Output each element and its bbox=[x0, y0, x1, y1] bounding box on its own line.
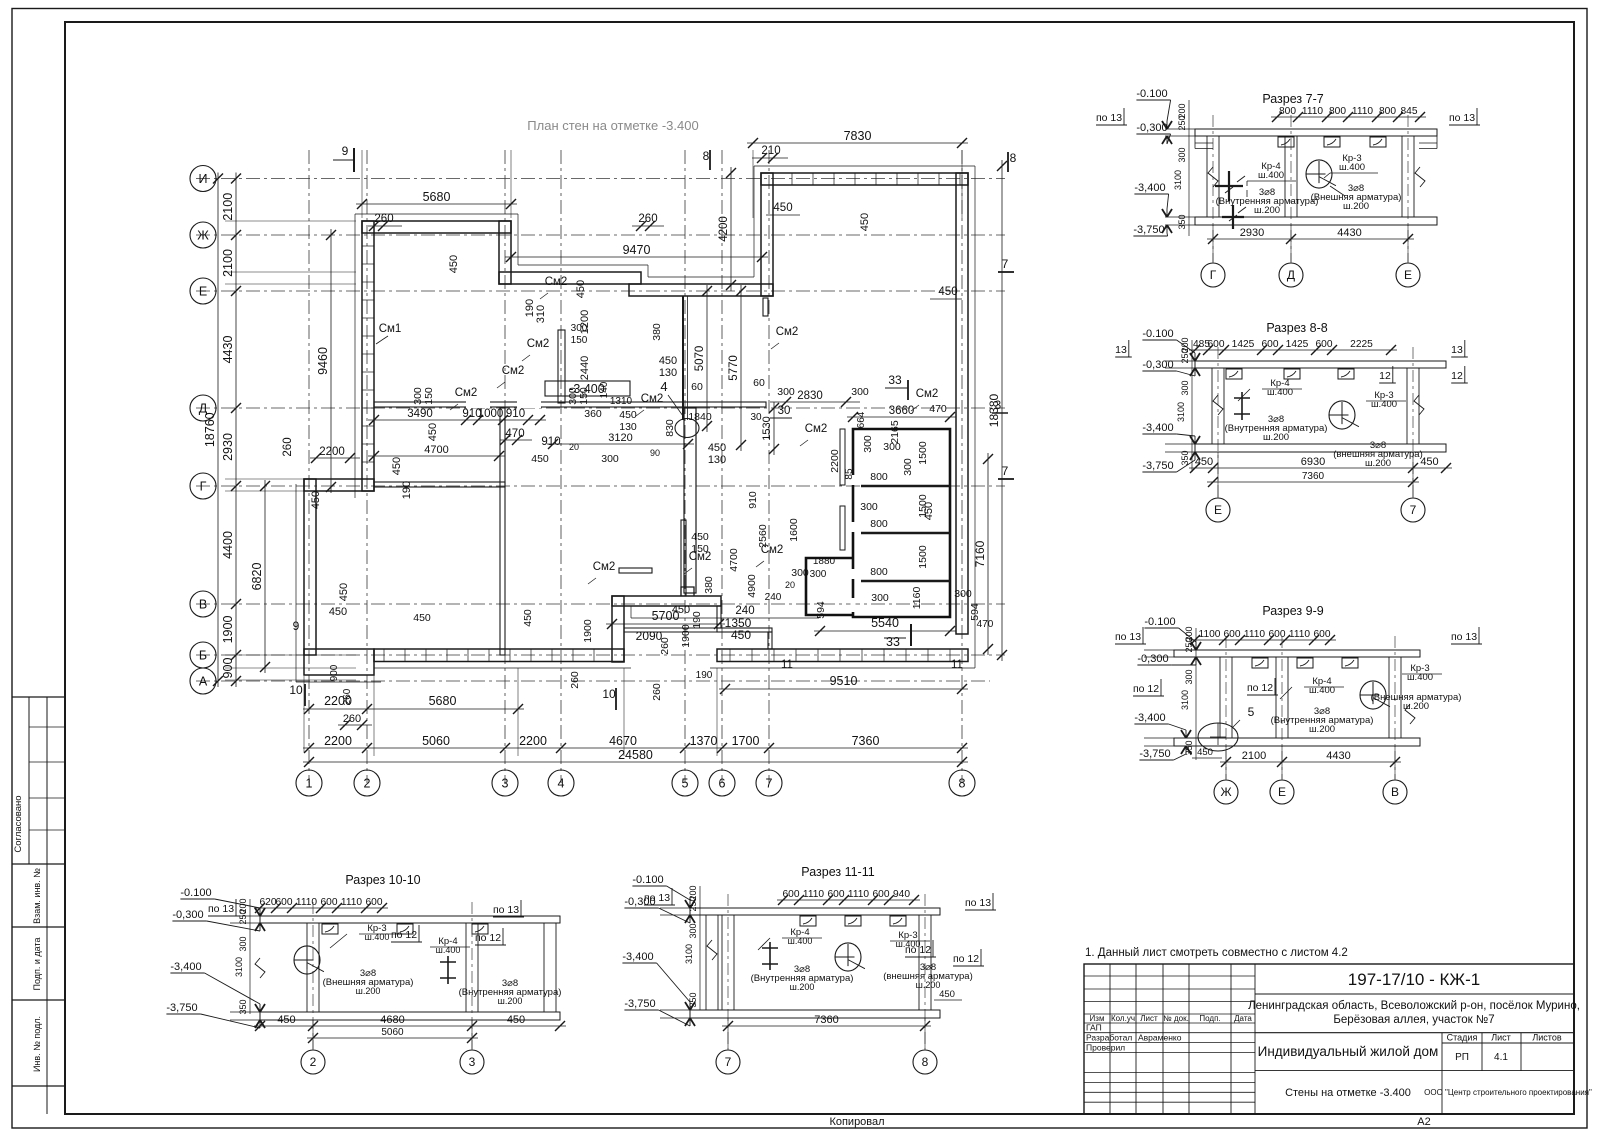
stair cluster left wall openings bbox=[851, 475, 856, 485]
svg-text:по 13: по 13 bbox=[208, 903, 234, 915]
svg-text:600: 600 bbox=[276, 897, 293, 908]
svg-text:600: 600 bbox=[783, 889, 800, 900]
svg-text:150: 150 bbox=[691, 543, 709, 555]
svg-text:300: 300 bbox=[902, 458, 914, 476]
svg-text:450: 450 bbox=[531, 453, 549, 465]
svg-text:по 12: по 12 bbox=[475, 932, 501, 944]
svg-text:Стены на отметке -3.400: Стены на отметке -3.400 bbox=[1285, 1087, 1411, 1099]
svg-text:Разрез 8-8: Разрез 8-8 bbox=[1266, 321, 1327, 335]
svg-text:по 12: по 12 bbox=[1247, 682, 1273, 694]
svg-text:Авраменко: Авраменко bbox=[1138, 1033, 1182, 1043]
svg-text:450: 450 bbox=[310, 491, 322, 509]
svg-text:3100: 3100 bbox=[1176, 402, 1186, 422]
svg-text:2200: 2200 bbox=[324, 734, 352, 748]
svg-text:4430: 4430 bbox=[221, 336, 235, 364]
section Разрез 10-10 rebar inserts bbox=[322, 924, 338, 934]
svg-text:7: 7 bbox=[766, 777, 773, 791]
svg-text:7360: 7360 bbox=[852, 734, 880, 748]
svg-text:250: 250 bbox=[238, 909, 248, 924]
svg-text:Взам. инв. №: Взам. инв. № bbox=[32, 868, 42, 924]
svg-text:4680: 4680 bbox=[380, 1014, 404, 1026]
section Разрез 7-7 axis bubbles bbox=[1201, 263, 1225, 287]
svg-text:Cм2: Cм2 bbox=[593, 561, 616, 573]
svg-text:1100: 1100 bbox=[1199, 629, 1221, 640]
svg-text:150: 150 bbox=[571, 335, 588, 346]
svg-text:9510: 9510 bbox=[830, 674, 858, 688]
svg-text:450: 450 bbox=[672, 604, 690, 616]
axis bubble 6 bbox=[709, 770, 735, 796]
cluster room walls bottom-left bbox=[806, 558, 852, 615]
svg-text:1000: 1000 bbox=[478, 408, 504, 420]
cluster thin wall stub lower bbox=[840, 506, 845, 550]
left dimension 9460 bbox=[330, 229, 332, 493]
svg-text:Cм2: Cм2 bbox=[916, 388, 939, 400]
svg-text:9: 9 bbox=[342, 144, 349, 158]
svg-text:7360: 7360 bbox=[1302, 471, 1325, 482]
axis bubble Г bbox=[190, 473, 216, 499]
svg-text:940: 940 bbox=[893, 889, 910, 900]
svg-text:План стен на отметке -3.400: План стен на отметке -3.400 bbox=[527, 118, 698, 133]
svg-text:12: 12 bbox=[1379, 370, 1391, 382]
section Разрез 7-7 bottom dims bbox=[1207, 238, 1414, 240]
svg-text:Ленинградская область, Всеволо: Ленинградская область, Всеволожский р-он… bbox=[1248, 1000, 1580, 1012]
perimeter wall left side axis 1 bbox=[304, 479, 316, 655]
wall segment hatch marks bottom left wall bbox=[383, 649, 385, 662]
left dimension chain axes bbox=[235, 173, 237, 688]
stair cluster divider 2 bbox=[861, 532, 950, 535]
section Разрез 11-11 axis bubbles bbox=[716, 1050, 740, 1074]
svg-text:2560: 2560 bbox=[757, 524, 769, 548]
section Разрез 8-8 break line bbox=[1414, 395, 1424, 415]
svg-text:260: 260 bbox=[343, 713, 361, 725]
svg-text:450: 450 bbox=[859, 213, 871, 231]
svg-text:ш.200: ш.200 bbox=[916, 980, 941, 990]
svg-text:130: 130 bbox=[659, 367, 677, 379]
svg-text:Cм2: Cм2 bbox=[455, 387, 478, 399]
svg-text:Е: Е bbox=[1404, 268, 1412, 282]
svg-text:450: 450 bbox=[731, 628, 751, 642]
svg-text:260: 260 bbox=[342, 688, 353, 705]
svg-text:Г: Г bbox=[1210, 268, 1217, 282]
svg-text:800: 800 bbox=[1379, 106, 1396, 117]
svg-text:4.1: 4.1 bbox=[1494, 1052, 1508, 1063]
interior wall stub x553 bbox=[558, 330, 565, 403]
svg-text:А2: А2 bbox=[1417, 1116, 1430, 1128]
svg-text:7: 7 bbox=[1002, 464, 1009, 478]
svg-text:Ж: Ж bbox=[1220, 785, 1231, 799]
interior wall on axis Д bbox=[374, 402, 766, 407]
section 9-9 detail ellipse 5 bbox=[1198, 723, 1238, 751]
svg-text:Стадия: Стадия bbox=[1447, 1033, 1478, 1043]
stair cluster divider 1 bbox=[861, 485, 950, 488]
svg-text:470: 470 bbox=[505, 428, 524, 440]
svg-text:№ док.: № док. bbox=[1163, 1014, 1189, 1023]
svg-text:12: 12 bbox=[1451, 370, 1463, 382]
svg-text:140: 140 bbox=[599, 381, 610, 398]
svg-text:11: 11 bbox=[781, 659, 793, 671]
section Разрез 11-11 bottom dims bbox=[722, 1025, 931, 1027]
extension lines bottom bbox=[373, 668, 375, 756]
svg-text:8: 8 bbox=[703, 149, 710, 163]
section Разрез 7-7 rebar circle detail bbox=[1306, 160, 1332, 188]
svg-text:190: 190 bbox=[401, 481, 413, 499]
left dimension chain overall 18760 bbox=[217, 173, 219, 688]
perimeter wall top of right block bbox=[761, 173, 968, 185]
svg-text:1110: 1110 bbox=[803, 889, 824, 900]
svg-text:800: 800 bbox=[870, 518, 888, 530]
svg-text:Разработал: Разработал bbox=[1086, 1033, 1132, 1043]
svg-text:3120: 3120 bbox=[608, 432, 632, 444]
svg-text:800: 800 bbox=[1329, 106, 1346, 117]
svg-text:-3,400: -3,400 bbox=[1134, 712, 1165, 724]
perimeter wall upper middle bbox=[499, 272, 641, 284]
section Разрез 8-8 rebar inserts bbox=[1226, 369, 1242, 379]
svg-text:-3,750: -3,750 bbox=[1133, 224, 1164, 236]
svg-text:310: 310 bbox=[535, 305, 547, 323]
opening detail ellipse 4 bbox=[675, 419, 699, 438]
foundation slab edge lines bbox=[355, 213, 518, 215]
svg-text:ш.200: ш.200 bbox=[1403, 701, 1429, 712]
svg-text:664: 664 bbox=[856, 411, 867, 428]
svg-text:Разрез 9-9: Разрез 9-9 bbox=[1262, 604, 1323, 618]
wall segment hatch marks top right wall bbox=[791, 173, 793, 185]
svg-text:360: 360 bbox=[584, 408, 602, 420]
section Разрез 11-11 axis lines bbox=[727, 894, 729, 1049]
interior wall stub x763 bbox=[763, 298, 768, 316]
interior wall bath vertical bbox=[681, 520, 686, 596]
svg-text:1530: 1530 bbox=[761, 416, 773, 440]
svg-text:450: 450 bbox=[938, 286, 957, 298]
section Разрез 9-9 pile walls bbox=[1219, 657, 1221, 738]
perimeter wall top of left block bbox=[362, 221, 511, 233]
svg-text:ш.400: ш.400 bbox=[436, 945, 461, 955]
svg-text:1500: 1500 bbox=[917, 545, 929, 569]
svg-text:260: 260 bbox=[638, 213, 657, 225]
axis bubble 5 bbox=[672, 770, 698, 796]
svg-text:Ж: Ж bbox=[197, 229, 209, 243]
svg-text:300: 300 bbox=[954, 588, 972, 600]
svg-text:300: 300 bbox=[862, 435, 874, 453]
svg-text:ш.200: ш.200 bbox=[498, 996, 523, 1006]
axis bubble 4 bbox=[548, 770, 574, 796]
svg-text:2930: 2930 bbox=[221, 433, 235, 461]
svg-text:8: 8 bbox=[1010, 151, 1017, 165]
svg-text:830: 830 bbox=[664, 419, 676, 437]
wall segment hatch marks on axis 2 wall bbox=[362, 245, 374, 247]
svg-text:5680: 5680 bbox=[423, 190, 451, 204]
svg-text:450: 450 bbox=[708, 442, 726, 454]
axis bubble Ж bbox=[190, 222, 216, 248]
section Разрез 10-10 pile walls bbox=[306, 923, 308, 1012]
svg-text:Проверил: Проверил bbox=[1086, 1043, 1125, 1053]
svg-text:И: И bbox=[199, 172, 208, 186]
svg-text:ш.400: ш.400 bbox=[365, 932, 390, 942]
svg-text:450: 450 bbox=[659, 355, 677, 367]
axis line 6 bbox=[721, 150, 723, 783]
svg-text:600: 600 bbox=[1269, 629, 1286, 640]
svg-text:600: 600 bbox=[1208, 339, 1225, 350]
svg-text:ш.200: ш.200 bbox=[1343, 201, 1369, 212]
svg-text:3: 3 bbox=[995, 400, 1001, 412]
axis line 2 bbox=[366, 150, 368, 783]
section Разрез 11-11 left vertical dims bbox=[699, 886, 701, 1010]
svg-text:3100: 3100 bbox=[234, 957, 244, 977]
section Разрез 10-10 break line bbox=[255, 958, 265, 978]
svg-text:24580: 24580 bbox=[618, 748, 653, 762]
svg-text:450: 450 bbox=[575, 280, 587, 298]
svg-text:2: 2 bbox=[364, 777, 371, 791]
svg-text:Д: Д bbox=[1287, 268, 1295, 282]
svg-text:380: 380 bbox=[703, 576, 715, 594]
svg-text:Г: Г bbox=[200, 480, 207, 494]
axis line Ж bbox=[196, 234, 1005, 236]
svg-text:1110: 1110 bbox=[296, 897, 317, 908]
svg-text:-3,750: -3,750 bbox=[1139, 748, 1170, 760]
svg-text:300: 300 bbox=[1180, 380, 1190, 395]
svg-text:190: 190 bbox=[524, 299, 536, 317]
svg-text:ш.200: ш.200 bbox=[356, 986, 381, 996]
svg-text:ш.200: ш.200 bbox=[1263, 432, 1289, 443]
svg-text:4: 4 bbox=[558, 777, 565, 791]
extension lines top bbox=[361, 150, 363, 218]
svg-text:2100: 2100 bbox=[221, 249, 235, 277]
svg-text:30: 30 bbox=[778, 405, 791, 417]
svg-text:240: 240 bbox=[765, 592, 782, 603]
svg-text:450: 450 bbox=[691, 531, 709, 543]
svg-text:13: 13 bbox=[1115, 344, 1127, 356]
svg-text:130: 130 bbox=[619, 421, 637, 433]
cluster thin wall stub upper bbox=[840, 429, 845, 485]
svg-text:150: 150 bbox=[423, 387, 435, 405]
svg-text:А: А bbox=[199, 675, 208, 689]
section Разрез 10-10 top slab bbox=[260, 916, 560, 923]
svg-text:7: 7 bbox=[725, 1055, 732, 1069]
svg-text:Cм2: Cм2 bbox=[641, 393, 664, 405]
svg-text:Cм1: Cм1 bbox=[379, 323, 402, 335]
svg-text:7: 7 bbox=[1410, 503, 1417, 517]
svg-text:197-17/10 - КЖ-1: 197-17/10 - КЖ-1 bbox=[1348, 970, 1480, 989]
axis bubble И bbox=[190, 166, 216, 192]
svg-text:4700: 4700 bbox=[728, 548, 740, 572]
svg-text:350: 350 bbox=[688, 992, 698, 1007]
svg-text:6930: 6930 bbox=[1301, 456, 1325, 468]
svg-text:1600: 1600 bbox=[788, 518, 800, 542]
svg-text:2225: 2225 bbox=[1350, 339, 1373, 350]
svg-text:Cм2: Cм2 bbox=[545, 276, 568, 288]
svg-text:300: 300 bbox=[810, 569, 827, 580]
axis line 4 bbox=[560, 150, 562, 783]
perimeter wall bottom middle bbox=[612, 596, 721, 606]
wall segment hatch marks bottom right wall bbox=[729, 649, 731, 662]
svg-text:1200: 1200 bbox=[579, 310, 591, 334]
svg-text:600: 600 bbox=[366, 897, 383, 908]
svg-text:20: 20 bbox=[785, 580, 795, 590]
svg-text:600: 600 bbox=[321, 897, 338, 908]
svg-text:190: 190 bbox=[696, 670, 713, 681]
svg-text:2440: 2440 bbox=[579, 356, 591, 380]
svg-text:18760: 18760 bbox=[203, 412, 217, 447]
section Разрез 7-7 top dim chain bbox=[1271, 116, 1426, 118]
svg-text:3: 3 bbox=[469, 1055, 476, 1069]
svg-text:1. Данный лист смотреть совмес: 1. Данный лист смотреть совместно с лист… bbox=[1085, 947, 1348, 959]
section Разрез 11-11 break line bbox=[707, 940, 717, 960]
svg-text:240: 240 bbox=[735, 605, 754, 617]
perimeter wall step down from middle block bbox=[717, 606, 721, 628]
svg-text:33: 33 bbox=[886, 635, 900, 649]
svg-text:13: 13 bbox=[1451, 344, 1463, 356]
section Разрез 9-9 axis bubbles bbox=[1214, 780, 1238, 804]
svg-text:6820: 6820 bbox=[250, 563, 264, 591]
svg-text:5060: 5060 bbox=[381, 1027, 404, 1038]
svg-text:5: 5 bbox=[1248, 705, 1255, 719]
section Разрез 9-9 left vertical dims bbox=[1195, 628, 1197, 760]
section Разрез 9-9 top slab bbox=[1174, 650, 1420, 657]
svg-text:600: 600 bbox=[1316, 339, 1333, 350]
svg-text:по 13: по 13 bbox=[493, 904, 519, 916]
svg-text:2830: 2830 bbox=[797, 390, 823, 402]
section Разрез 9-9 rebar inserts bbox=[1252, 658, 1268, 668]
svg-text:Берёзовая аллея, участок №7: Берёзовая аллея, участок №7 bbox=[1333, 1014, 1494, 1026]
section Разрез 10-10 rebar circle detail bbox=[294, 946, 320, 974]
section Разрез 7-7 break line bbox=[1208, 167, 1218, 187]
section Разрез 7-7 top slab bbox=[1195, 129, 1437, 136]
section Разрез 11-11 top dim chain bbox=[777, 899, 920, 901]
svg-text:3100: 3100 bbox=[684, 944, 694, 964]
section Разрез 9-9 rebar circle detail bbox=[1360, 681, 1386, 709]
svg-text:-3,400: -3,400 bbox=[1134, 182, 1165, 194]
svg-text:450: 450 bbox=[619, 409, 637, 421]
svg-text:910: 910 bbox=[506, 408, 525, 420]
svg-text:620: 620 bbox=[260, 897, 277, 908]
dim 4700 on axis Г wall bbox=[368, 455, 505, 457]
svg-text:350: 350 bbox=[1184, 740, 1194, 755]
section 7-7 rebar cross marks bbox=[1215, 185, 1243, 187]
svg-text:260: 260 bbox=[282, 437, 294, 456]
axis bubble Е bbox=[190, 278, 216, 304]
section Разрез 8-8 rebar circle detail bbox=[1329, 401, 1355, 429]
axis line А bbox=[196, 680, 990, 682]
svg-text:450: 450 bbox=[507, 1014, 525, 1026]
svg-text:594: 594 bbox=[815, 601, 827, 619]
svg-text:5: 5 bbox=[682, 777, 689, 791]
svg-text:по 12: по 12 bbox=[905, 944, 931, 956]
svg-text:5060: 5060 bbox=[422, 734, 450, 748]
svg-text:-3,750: -3,750 bbox=[624, 998, 655, 1010]
svg-text:В: В bbox=[199, 598, 207, 612]
section Разрез 9-9 bottom slab bbox=[1174, 738, 1420, 746]
svg-text:по 13: по 13 bbox=[1451, 631, 1477, 643]
section Разрез 10-10 bottom slab bbox=[260, 1012, 560, 1020]
section Разрез 8-8 axis lines bbox=[1217, 347, 1219, 497]
svg-text:2200: 2200 bbox=[829, 449, 841, 473]
svg-text:600: 600 bbox=[1262, 339, 1279, 350]
section Разрез 8-8 top dim chain bbox=[1189, 349, 1397, 351]
svg-text:3: 3 bbox=[502, 777, 509, 791]
svg-text:1840: 1840 bbox=[688, 411, 712, 423]
svg-text:5540: 5540 bbox=[871, 616, 899, 630]
svg-text:1500: 1500 bbox=[917, 441, 929, 465]
perimeter wall bottom of left block bbox=[374, 649, 624, 662]
vertical dim 4200 bbox=[730, 167, 732, 291]
svg-text:910: 910 bbox=[747, 491, 759, 509]
axis line Б bbox=[196, 654, 1005, 656]
svg-text:1425: 1425 bbox=[1232, 339, 1255, 350]
svg-text:300: 300 bbox=[777, 386, 795, 398]
svg-text:1880: 1880 bbox=[813, 556, 836, 567]
svg-text:450: 450 bbox=[391, 457, 403, 475]
svg-text:2200: 2200 bbox=[319, 446, 345, 458]
svg-text:ш.400: ш.400 bbox=[788, 936, 813, 946]
svg-text:2200: 2200 bbox=[519, 734, 547, 748]
svg-text:11: 11 bbox=[951, 659, 963, 671]
bottom middle dimension 5700 bbox=[606, 623, 725, 625]
axis line Д bbox=[196, 407, 1005, 409]
svg-text:ш.400: ш.400 bbox=[1258, 170, 1284, 181]
svg-text:1110: 1110 bbox=[1302, 106, 1323, 117]
left dimension 6820 bbox=[264, 480, 266, 673]
svg-text:8: 8 bbox=[959, 777, 966, 791]
svg-text:по 12: по 12 bbox=[391, 929, 417, 941]
perimeter wall left of middle block bbox=[612, 596, 624, 662]
axis bubble 1 bbox=[296, 770, 322, 796]
section Разрез 7-7 left vertical dims bbox=[1188, 100, 1190, 236]
svg-text:1900: 1900 bbox=[221, 616, 235, 644]
svg-text:800: 800 bbox=[870, 566, 888, 578]
vertical dim 1530 bbox=[773, 402, 775, 455]
interior wall axis 5 lower bbox=[684, 408, 696, 593]
svg-text:4200: 4200 bbox=[718, 216, 730, 242]
section Разрез 9-9 axis lines bbox=[1225, 636, 1227, 779]
axis line 7 bbox=[768, 150, 770, 783]
svg-text:1310: 1310 bbox=[610, 396, 633, 407]
svg-text:150: 150 bbox=[578, 387, 590, 405]
svg-text:85: 85 bbox=[844, 468, 855, 480]
svg-text:900: 900 bbox=[329, 664, 340, 681]
svg-text:4: 4 bbox=[660, 379, 667, 394]
svg-text:РП: РП bbox=[1455, 1052, 1469, 1063]
section Разрез 7-7 pile walls bbox=[1206, 136, 1208, 217]
svg-text:8: 8 bbox=[922, 1055, 929, 1069]
svg-text:1700: 1700 bbox=[732, 734, 760, 748]
svg-text:300: 300 bbox=[871, 592, 889, 604]
svg-text:350: 350 bbox=[1180, 450, 1190, 465]
section Разрез 10-10 bottom dims bbox=[254, 1025, 566, 1027]
top dimension 5680 bbox=[356, 203, 517, 205]
perimeter wall step on axis Г bbox=[304, 479, 374, 491]
svg-text:9460: 9460 bbox=[316, 347, 330, 375]
section Разрез 7-7 axis lines bbox=[1212, 115, 1214, 262]
svg-text:ш.200: ш.200 bbox=[790, 982, 815, 992]
svg-text:600: 600 bbox=[873, 889, 890, 900]
axis bubble Б bbox=[190, 642, 216, 668]
svg-text:Е: Е bbox=[199, 285, 207, 299]
svg-text:Разрез 7-7: Разрез 7-7 bbox=[1262, 92, 1323, 106]
svg-text:450: 450 bbox=[329, 606, 347, 618]
bottom dimension overall 24580 bbox=[303, 761, 968, 763]
perimeter wall bottom right bbox=[717, 649, 968, 662]
axis line 8 bbox=[961, 150, 963, 783]
axis bubble 3 bbox=[492, 770, 518, 796]
perimeter wall on axis Е bbox=[629, 284, 773, 296]
svg-text:60: 60 bbox=[753, 377, 765, 389]
svg-text:7830: 7830 bbox=[844, 129, 872, 143]
svg-text:Лист: Лист bbox=[1140, 1014, 1158, 1023]
svg-text:Б: Б bbox=[199, 649, 207, 663]
svg-text:3100: 3100 bbox=[1173, 170, 1183, 190]
bottom-left lower chain bbox=[303, 708, 524, 710]
svg-text:1425: 1425 bbox=[1286, 339, 1309, 350]
svg-text:250: 250 bbox=[1177, 115, 1187, 130]
